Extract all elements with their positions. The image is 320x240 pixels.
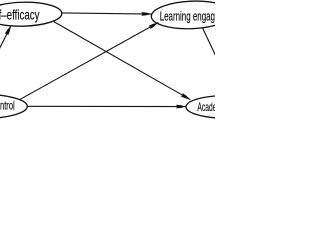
node Academic achievement (ellipse, cropped at right/bottom edge) xyxy=(186,96,266,119)
arrow Self-efficacy to Academic achievement (diagonal) xyxy=(54,22,191,100)
svg-text:Self-control: Self-control xyxy=(0,99,15,113)
arrow Self-control to Academic achievement (horizontal) xyxy=(27,105,186,107)
arrow Self-control to Learning engagement (diagonal) xyxy=(20,23,159,100)
node Self-control (ellipse, cropped at left edge) xyxy=(0,94,27,119)
arrow Self-efficacy to Learning engagement (horizontal) xyxy=(62,13,152,14)
svg-text:Academic achievement: Academic achievement xyxy=(197,100,215,114)
wire Learning engagement to Academic achievement (exits right edge, arrowhead off-screen) xyxy=(203,28,217,58)
node Learning engagement (ellipse, cropped at right edge) xyxy=(151,0,233,30)
svg-text:Learning engagement: Learning engagement xyxy=(160,8,215,23)
arrow Self-control to Self-efficacy (steep, left edge) xyxy=(0,26,11,96)
svg-text:Self–efficacy: Self–efficacy xyxy=(0,6,40,22)
node Self-efficacy (ellipse, cropped at left edge) xyxy=(0,1,62,27)
